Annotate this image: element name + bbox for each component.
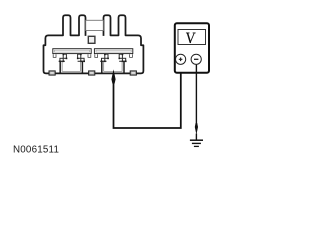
- connector key square: [88, 36, 95, 43]
- ground lead wire: [195, 65, 197, 140]
- left leg junction dots: [59, 54, 85, 63]
- right terminal strip: [94, 49, 132, 58]
- connector C1 body outline: [44, 15, 144, 73]
- test lead wire loop: [114, 65, 181, 128]
- voltmeter display: [178, 30, 206, 45]
- left terminal cavity: [59, 61, 84, 73]
- voltmeter body: [175, 23, 209, 73]
- right leg junction dots: [101, 54, 127, 63]
- left strip legs: [60, 54, 84, 61]
- right terminal cavity: [100, 61, 125, 73]
- left terminal strip: [53, 49, 91, 58]
- ground symbol: [190, 140, 203, 146]
- pad 1: [49, 71, 55, 75]
- voltmeter - terminal: [191, 54, 201, 64]
- voltmeter V label: [186, 33, 195, 43]
- pad 3: [130, 71, 136, 75]
- right strip legs: [102, 54, 126, 61]
- probe P2 (to ground): [195, 123, 198, 135]
- connector latch window: [86, 20, 104, 30]
- pad 2: [89, 71, 95, 75]
- probe P1 (at connector): [111, 69, 115, 83]
- svg-text:N0061511: N0061511: [13, 145, 59, 156]
- voltmeter + terminal: [176, 54, 186, 64]
